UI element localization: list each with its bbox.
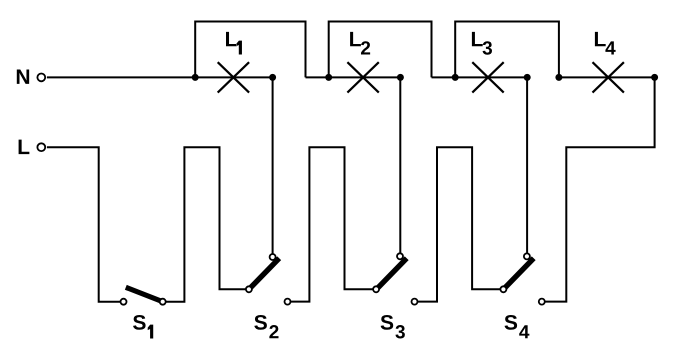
- contact S4 fixed: [539, 299, 545, 305]
- wire L1 return to S2: [272, 77, 274, 257]
- label S4: [505, 315, 530, 338]
- wire bridge over L3: [455, 22, 559, 78]
- label N: [17, 69, 29, 83]
- label S2: [254, 315, 278, 338]
- wire N bus segment 3: [432, 76, 528, 78]
- wire bridge over L1: [195, 22, 305, 78]
- wire L4 return to S4 fixed contact: [542, 77, 655, 301]
- lamp L4 cross: [593, 62, 624, 92]
- contact S1 left: [121, 299, 127, 305]
- wire S1 to S2 pivot: [163, 147, 249, 301]
- junction node L2 right: [397, 74, 404, 81]
- label L: [19, 140, 30, 154]
- wire L2 return to S3: [399, 77, 401, 256]
- wire L feed to S1: [47, 147, 124, 302]
- label L3: [472, 32, 492, 55]
- junction node L4 right: [651, 74, 658, 81]
- contact S4 top: [524, 253, 530, 259]
- lamp L3 cross: [472, 62, 503, 92]
- switch S3 lever: [378, 258, 407, 287]
- junction node L3 left: [452, 74, 459, 81]
- wire L3 return to S4: [526, 77, 528, 256]
- junction node L3 right: [524, 74, 531, 81]
- switch S4 lever: [505, 258, 534, 287]
- contact S3 top: [397, 253, 403, 259]
- contact S3 pivot: [373, 286, 379, 292]
- label S1: [133, 315, 153, 339]
- terminal N: [37, 74, 45, 82]
- wire N bus segment 1: [47, 76, 273, 78]
- terminal L: [37, 143, 45, 151]
- junction node L1 right: [269, 74, 276, 81]
- wire N bus segment 4: [559, 76, 655, 78]
- switch S2 lever: [251, 258, 280, 287]
- lamp L1 cross: [218, 62, 249, 92]
- contact S3 fixed: [412, 299, 418, 305]
- contact S2 top: [270, 254, 276, 260]
- label L4: [595, 32, 616, 55]
- junction node L4 left: [555, 74, 562, 81]
- switch S1 lever: [126, 287, 162, 301]
- junction node L2 left: [325, 74, 332, 81]
- label L2: [350, 32, 370, 55]
- contact S1 right: [160, 299, 166, 305]
- wire bridge over L2: [329, 22, 432, 78]
- lamp L2 cross: [347, 62, 378, 92]
- contact S4 pivot: [500, 286, 506, 292]
- label L1: [226, 32, 242, 55]
- contact S2 fixed: [285, 299, 291, 305]
- wire S3 fixed to S4 pivot: [415, 147, 504, 301]
- contact S2 pivot: [246, 286, 252, 292]
- wire N bus segment 2: [306, 76, 401, 78]
- label S3: [381, 315, 405, 339]
- junction node L1 left: [192, 74, 199, 81]
- wire S2 fixed to S3 pivot: [288, 147, 377, 301]
